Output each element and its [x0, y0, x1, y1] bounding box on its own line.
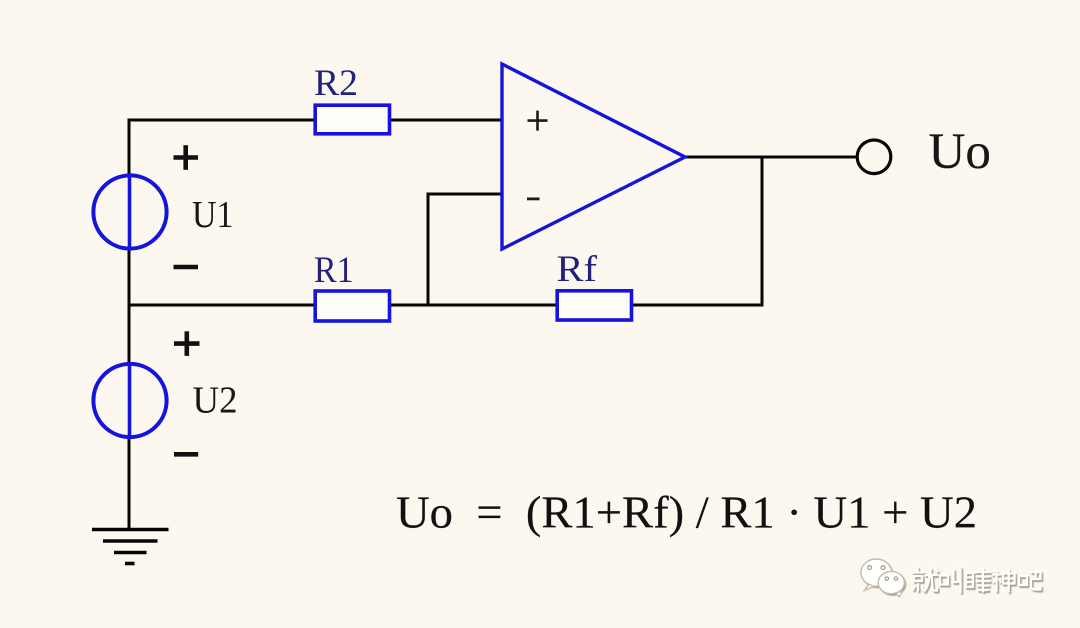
wire top rail left of R2	[129, 119, 314, 122]
svg-text:U1: U1	[192, 194, 234, 236]
wire op-amp output	[685, 156, 857, 159]
svg-text:U2: U2	[193, 379, 238, 421]
U1 plus sign	[174, 145, 199, 170]
wire left vertical above U1	[128, 119, 131, 177]
source U2	[93, 364, 166, 438]
resistor Rf	[557, 291, 631, 320]
wire left vertical between U1 and U2	[128, 248, 131, 364]
op-amp	[502, 64, 685, 249]
svg-text:Uo: Uo	[929, 124, 992, 180]
ground	[92, 530, 169, 564]
watermark: wechat logo + text (white with gray shadow)	[861, 559, 1042, 597]
source U1	[93, 175, 166, 249]
output terminal Uo	[857, 140, 891, 174]
wire inverting input horizontal	[428, 193, 503, 196]
shadow copy	[862, 560, 1042, 595]
svg-text:Uo = (R1+Rf) / R1 · U1 + U2: Uo = (R1+Rf) / R1 · U1 + U2	[396, 488, 977, 538]
white foreground	[861, 559, 1041, 597]
svg-text:Rf: Rf	[557, 249, 598, 290]
resistor R1	[315, 291, 389, 321]
wire bottom rail left of R1	[129, 304, 315, 307]
svg-text:R2: R2	[314, 63, 358, 104]
wire top rail R2 to op-amp + input	[391, 119, 503, 122]
wire bottom rail Rf to feedback corner	[633, 304, 762, 307]
resistor R2	[315, 105, 389, 134]
svg-text:R1: R1	[314, 250, 354, 291]
U1 minus sign	[174, 265, 199, 270]
U2 minus sign	[174, 452, 198, 457]
op-amp plus input marker	[528, 111, 548, 131]
op-amp minus input marker	[527, 197, 540, 200]
wire inverting feedback vertical	[427, 193, 430, 307]
wire bottom rail R1 to Rf	[391, 304, 556, 307]
U2 plus sign	[174, 331, 200, 356]
wire output feedback vertical	[761, 157, 764, 307]
wire left vertical U2 to ground	[128, 437, 131, 529]
